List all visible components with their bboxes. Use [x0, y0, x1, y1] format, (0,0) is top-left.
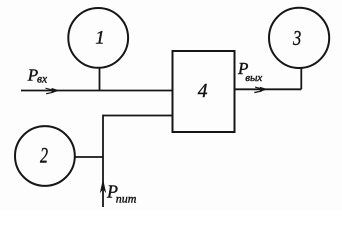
block element 4: [173, 51, 235, 132]
wire: connector circle 2 to supply riser: [75, 156, 104, 158]
svg-text:Pвх: Pвх: [27, 65, 48, 85]
arrow on supply riser pointing up: [100, 179, 106, 193]
circle element 1: [68, 8, 128, 68]
wire: output line from block 4: [235, 88, 302, 90]
svg-text:1: 1: [95, 28, 105, 49]
circle element 3: [269, 8, 329, 68]
wire: supply riser vertical: [102, 115, 104, 207]
wire: lower input line from supply riser to block 4: [103, 115, 173, 117]
svg-text:2: 2: [40, 142, 48, 167]
svg-text:Pвых: Pвых: [237, 59, 262, 84]
wire: input line P_vx: [21, 90, 173, 92]
svg-text:4: 4: [198, 81, 208, 102]
wire: stem from circle 1 to input line: [99, 68, 101, 91]
arrow on input line: [45, 88, 59, 95]
arrow on output line: [254, 86, 268, 93]
svg-text:3: 3: [292, 26, 301, 50]
circle element 2: [15, 126, 75, 186]
svg-text:Pпит: Pпит: [106, 182, 137, 206]
wire: riser to circle 3: [300, 67, 302, 89]
